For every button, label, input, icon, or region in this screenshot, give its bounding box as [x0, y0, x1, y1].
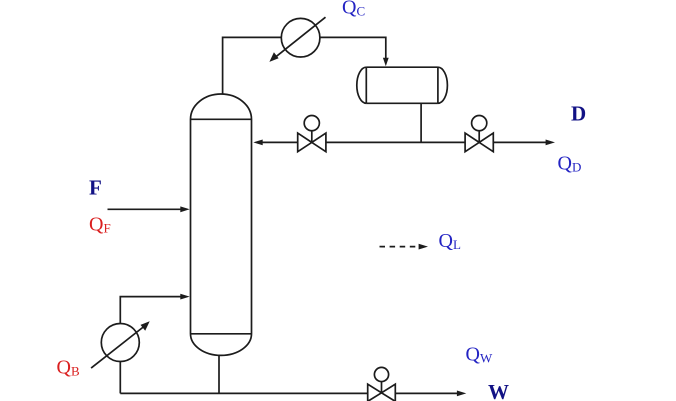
valve V3 (bottoms) bowtie: [368, 384, 396, 401]
valve V2 (distillate) bowtie: [465, 133, 493, 152]
condenser circle: [281, 18, 320, 57]
reflux drum: [366, 66, 438, 68]
arrow feed into column: [180, 206, 189, 212]
wire: bottoms product line: [396, 392, 459, 394]
wire: header between valves: [326, 141, 465, 143]
arrow into column: [253, 140, 262, 146]
arrow into drum: [383, 58, 389, 67]
valve V2 handwheel circle: [472, 116, 487, 131]
column bottom tangent line: [191, 333, 252, 335]
wire: reboiler return to column: [120, 297, 182, 324]
arrow reboiler return: [180, 294, 189, 300]
arrow bottoms W: [457, 391, 466, 397]
column top tangent line: [191, 118, 252, 120]
svg-text:W: W: [488, 380, 509, 401]
valve V1 stem: [311, 131, 313, 143]
reboiler circle: [101, 324, 139, 362]
wire: reboiler bottom leg: [119, 362, 121, 394]
valve V2 stem: [478, 131, 480, 143]
wire: condenser to drum: [320, 37, 386, 61]
wire: column bottoms outlet: [218, 355, 220, 393]
reboiler diagonal arrow: [91, 326, 145, 369]
column shell: [190, 94, 251, 355]
wire: distillate product line: [493, 141, 547, 143]
valve V1 handwheel circle: [304, 116, 319, 131]
wire: reflux line into column: [262, 141, 298, 143]
wire: overhead vapour line: [223, 37, 282, 94]
valve V3 stem: [381, 382, 383, 393]
valve V1 (reflux) bowtie: [298, 133, 326, 152]
valve V3 handwheel circle: [374, 367, 388, 381]
svg-text:D: D: [571, 102, 586, 126]
svg-text:F: F: [89, 175, 102, 199]
wire: drum outlet: [420, 103, 422, 142]
wire: feed line: [108, 208, 183, 210]
condenser diagonal arrow: [274, 17, 326, 59]
arrow distillate D: [546, 140, 555, 146]
svg-text:QC: QC: [342, 0, 365, 19]
wire: bottoms line: [120, 392, 367, 394]
wire: dashed QL arrow: [380, 246, 420, 248]
